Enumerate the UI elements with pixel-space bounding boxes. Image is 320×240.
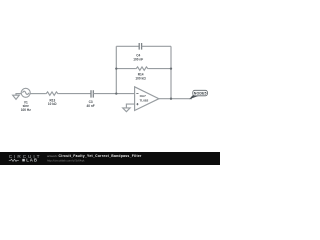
svg-text:artwork: Circuit_Faulty_Yet_Co: artwork: Circuit_Faulty_Yet_Correct_Band… [47, 154, 142, 158]
svg-text:http://circuitlab.com/c/7p64qk: http://circuitlab.com/c/7p64qk [47, 159, 85, 163]
svg-text:NODE5: NODE5 [194, 91, 207, 95]
svg-text:100 nF: 100 nF [133, 58, 143, 62]
svg-text:10 kΩ: 10 kΩ [48, 102, 57, 106]
svg-text:100 kΩ: 100 kΩ [135, 77, 146, 81]
svg-text:LAB: LAB [26, 158, 38, 163]
svg-text:40 nF: 40 nF [86, 104, 94, 108]
svg-text:100 Hz: 100 Hz [21, 108, 31, 112]
svg-text:TL082: TL082 [140, 98, 149, 102]
